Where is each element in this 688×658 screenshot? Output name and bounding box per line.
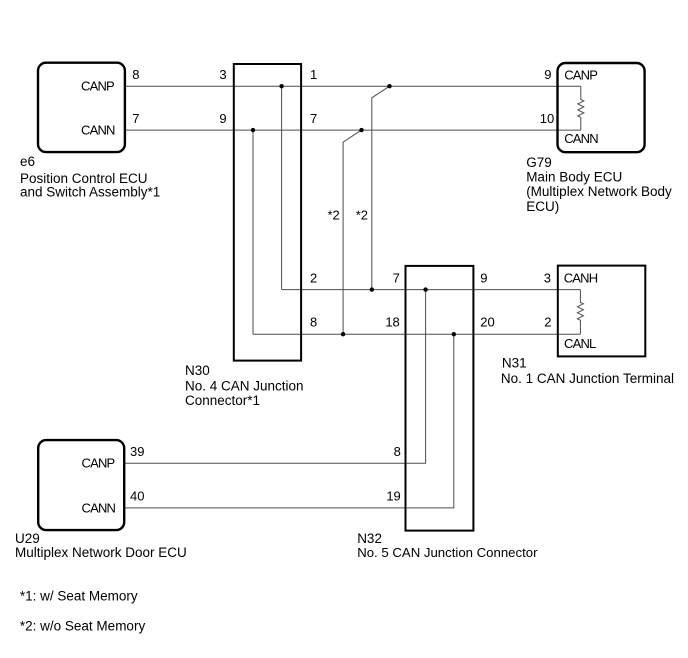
svg-text:e6: e6: [20, 154, 35, 169]
svg-text:No. 5 CAN Junction Connector: No. 5 CAN Junction Connector: [357, 545, 538, 560]
svg-text:2: 2: [310, 271, 317, 286]
svg-text:9: 9: [219, 111, 226, 126]
svg-text:*2: *2: [356, 207, 368, 222]
svg-text:Connector*1: Connector*1: [185, 393, 260, 408]
svg-text:19: 19: [386, 488, 400, 503]
svg-text:No. 1 CAN Junction Terminal: No. 1 CAN Junction Terminal: [501, 371, 674, 386]
svg-text:*2: *2: [328, 207, 340, 222]
svg-text:7: 7: [310, 111, 317, 126]
svg-text:9: 9: [480, 271, 487, 286]
svg-text:CANN: CANN: [82, 500, 116, 515]
svg-text:CANL: CANL: [564, 336, 596, 351]
svg-text:*1: w/ Seat Memory: *1: w/ Seat Memory: [20, 589, 138, 604]
svg-text:9: 9: [544, 67, 551, 82]
svg-text:No. 4 CAN Junction: No. 4 CAN Junction: [185, 379, 304, 394]
svg-text:3: 3: [544, 271, 551, 286]
svg-text:1: 1: [310, 67, 317, 82]
svg-text:CANN: CANN: [564, 131, 598, 146]
svg-text:CANP: CANP: [81, 78, 114, 93]
svg-text:10: 10: [540, 111, 554, 126]
svg-text:ECU): ECU): [526, 199, 559, 214]
svg-text:CANP: CANP: [82, 456, 115, 471]
svg-text:N31: N31: [502, 356, 527, 371]
svg-text:3: 3: [219, 67, 226, 82]
svg-text:N30: N30: [185, 363, 210, 378]
svg-text:20: 20: [480, 314, 494, 329]
svg-text:8: 8: [394, 444, 401, 459]
svg-text:7: 7: [132, 111, 139, 126]
svg-text:(Multiplex Network Body: (Multiplex Network Body: [526, 184, 672, 199]
svg-text:Main Body ECU: Main Body ECU: [526, 169, 622, 184]
svg-text:8: 8: [310, 314, 317, 329]
svg-text:40: 40: [130, 488, 144, 503]
svg-text:CANH: CANH: [564, 271, 598, 286]
svg-text:U29: U29: [15, 531, 40, 546]
svg-text:18: 18: [385, 314, 399, 329]
svg-text:and Switch Assembly*1: and Switch Assembly*1: [20, 184, 160, 199]
svg-text:2: 2: [544, 314, 551, 329]
svg-text:CANP: CANP: [564, 68, 597, 83]
svg-text:7: 7: [393, 271, 400, 286]
svg-text:G79: G79: [526, 155, 552, 170]
svg-text:8: 8: [132, 67, 139, 82]
svg-text:CANN: CANN: [81, 123, 115, 138]
svg-text:39: 39: [130, 444, 144, 459]
svg-text:Multiplex Network Door ECU: Multiplex Network Door ECU: [15, 545, 187, 560]
svg-text:*2: w/o Seat Memory: *2: w/o Seat Memory: [20, 618, 146, 633]
